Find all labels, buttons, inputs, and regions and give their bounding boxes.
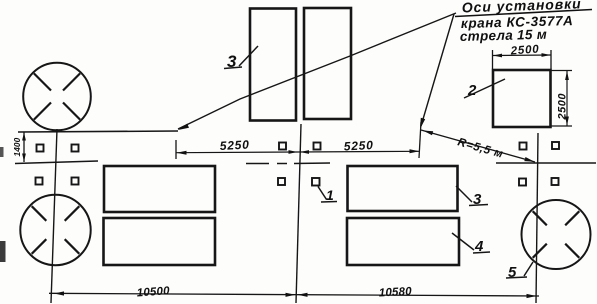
radius line R=5,5 м: [421, 130, 535, 162]
crane position circle bottom-left: [20, 195, 90, 265]
center dash-dot axis dot: [277, 163, 287, 165]
crane position circle top-left: [23, 63, 91, 131]
center dash-dot axis segment 3: [294, 162, 330, 165]
leader line A from title to left crane axis: [178, 13, 456, 130]
label 2 leader: [464, 79, 505, 98]
left lower horizontal line: [15, 161, 98, 164]
rectangle right lower (item 4): [347, 218, 459, 265]
label 1 leader: [318, 187, 327, 200]
svg-text:5250: 5250: [343, 138, 374, 154]
svg-text:2500: 2500: [557, 93, 569, 121]
label 5 leader: [524, 262, 533, 276]
title underline: [455, 10, 592, 17]
svg-text:10500: 10500: [136, 285, 170, 299]
svg-text:5: 5: [508, 264, 517, 281]
left vertical crane track axis: [51, 129, 57, 303]
svg-text:10580: 10580: [379, 286, 413, 300]
label 3 top underline: [224, 67, 242, 69]
crane position circle bottom-right (item 5): [522, 200, 591, 269]
tall rectangle left (slab stack 3): [250, 9, 296, 121]
label 3 top leader: [239, 46, 258, 66]
leader line B from title to right crane axis point: [420, 14, 454, 129]
svg-text:2500: 2500: [509, 44, 540, 58]
column squares left group: [36, 145, 79, 185]
dimension 1400 vertical line: [22, 132, 26, 162]
dimension 2500 top extension left: [492, 50, 494, 69]
label 3 right leader: [456, 186, 472, 202]
left horizontal axis line: [18, 131, 178, 132]
tall rectangle right (slab stack 3): [304, 8, 351, 119]
scan smudge left edge mid: [0, 147, 4, 157]
bottom dimension line 10500 / 10580: [49, 291, 539, 298]
dimension extension line left (x=176): [175, 140, 177, 159]
svg-text:1: 1: [326, 187, 334, 203]
rectangle left lower: [104, 218, 216, 265]
svg-text:2: 2: [467, 82, 477, 99]
right vertical crane track axis: [536, 133, 538, 303]
dimension line 2500 top: [493, 53, 552, 57]
svg-text:5250: 5250: [219, 137, 250, 153]
dimension line 5250+5250: [176, 149, 420, 154]
column squares center group: [278, 143, 321, 186]
svg-text:3: 3: [473, 191, 482, 208]
dimension 2500 right extension top: [551, 70, 572, 72]
right horizontal axis line: [496, 162, 596, 164]
column squares right group: [519, 142, 559, 186]
label 1 underline: [321, 201, 337, 204]
scan smudge left edge lower: [0, 241, 6, 262]
square item 2: [493, 70, 551, 127]
rectangle right upper (item 3): [348, 166, 458, 211]
svg-text:3: 3: [227, 52, 237, 71]
svg-text:1400: 1400: [12, 137, 22, 156]
label 3 right underline: [469, 205, 488, 206]
svg-text:стрела 15 м: стрела 15 м: [460, 27, 548, 44]
rectangle left upper: [104, 166, 215, 212]
dimension extension line right (x=420): [419, 122, 421, 158]
center dash-dot axis segment 2: [246, 163, 269, 165]
dimension 2500 top extension right: [550, 50, 552, 69]
label 5 underline: [506, 277, 527, 278]
label 4 leader: [452, 233, 474, 250]
dimension 2500 right extension bottom: [551, 125, 572, 127]
dimension line 2500 right: [565, 71, 569, 127]
svg-text:4: 4: [474, 238, 484, 255]
center vertical axis: [296, 124, 301, 303]
label 4 underline: [473, 252, 490, 253]
